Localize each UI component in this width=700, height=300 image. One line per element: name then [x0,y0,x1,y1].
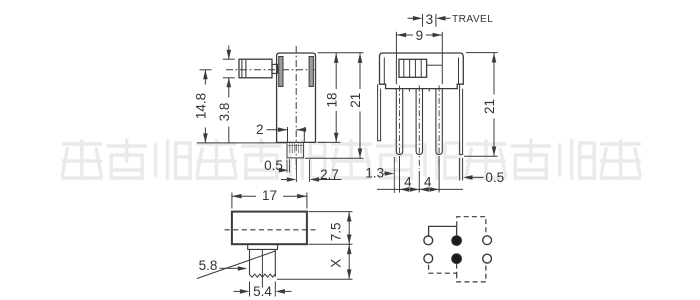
front view: frame inner side lines [383,58,385,85]
svg-text:17: 17 [262,188,277,203]
dim X [348,244,350,279]
extension line front bottom right [464,155,498,157]
side view: knob horizontal centerline [226,69,315,71]
svg-text:5.4: 5.4 [253,284,272,299]
side view: body outline [277,53,316,142]
extension line side 18 bottom [318,141,341,143]
bottom view: body centerline [225,229,316,231]
schematic wire dashed pole2-throw2 [457,264,486,282]
svg-text:18: 18 [324,92,339,107]
dim 3.8 [223,58,235,60]
svg-text:14.8: 14.8 [194,93,209,119]
chain extension lines for pin pitch [399,157,401,193]
schematic wire dashed pole1-throw2 [457,217,486,236]
side view: actuator knob [239,59,272,78]
side view: vertical centerline [295,46,297,170]
side view: knob stub [272,64,278,73]
bottom view: terminal with break [249,249,251,274]
svg-text:21: 21 [482,99,497,114]
svg-text:21: 21 [348,93,363,108]
svg-text:4: 4 [424,174,432,189]
dim 2.7 [295,160,297,183]
side view: serrated terminal [287,143,304,158]
svg-text:4: 4 [404,174,412,189]
extension lines right of bottom view [309,211,353,213]
bottom view: terminal center line [261,249,263,287]
front view: knob front face [399,59,427,77]
svg-text:5.8: 5.8 [199,258,218,273]
dim 18 [335,53,337,89]
side view: knob cap lines [241,59,243,78]
bottom view: break zigzag [250,274,276,277]
svg-text:X: X [329,259,344,268]
svg-text:2: 2 [256,122,264,137]
svg-text:1.3: 1.3 [365,166,384,181]
dim 3 travel [422,14,424,27]
front view: window back edge line [427,64,443,66]
front view: frame bottom tabs [408,89,410,92]
extension line side pin bottom [305,157,364,159]
dim 21 side [359,53,361,89]
front view: slider window side lines [395,32,397,84]
svg-text:3: 3 [426,12,434,27]
bottom view: base body [232,212,307,245]
side view: left contact bar [279,57,283,87]
dim 4 4 pin pitch [377,188,463,190]
svg-text:3.8: 3.8 [217,103,232,122]
schematic wire solid pole1-throw1 [429,226,457,236]
front view: terminal pins [396,89,402,155]
dim 5.4 [249,282,251,297]
svg-text:TRAVEL: TRAVEL [452,14,493,25]
svg-text:2.7: 2.7 [320,167,339,182]
terminal 2 common filled [452,236,462,246]
extension line side top right [318,52,364,54]
terminal 5 common filled [452,254,462,264]
svg-text:7.5: 7.5 [329,222,344,241]
watermark text [62,140,640,178]
terminal 6 open [483,254,492,263]
svg-text:9: 9 [416,28,424,43]
terminal 3 open [483,236,492,245]
dim 9 [397,34,414,36]
svg-text:0.5: 0.5 [485,170,504,185]
terminal 1 open [424,236,433,245]
dim 21 front [493,53,495,95]
front view: right leg [460,84,463,154]
side view: interior neck lines [287,127,289,143]
front view: left leg [378,84,381,141]
front view: frame outline [380,53,464,89]
extension line body bottom left [197,142,286,144]
side view: right contact bar [309,57,313,87]
bottom view: dim 17 [232,195,256,197]
bottom view: flange [248,244,278,249]
terminal 4 open [424,254,433,263]
schematic wire dashed pole2-throw1 [429,264,457,273]
extension line front top right [466,52,498,54]
dim 14.8 [200,69,212,71]
dim 7.5 [348,212,350,244]
dim 0.5 front leg [459,158,461,181]
